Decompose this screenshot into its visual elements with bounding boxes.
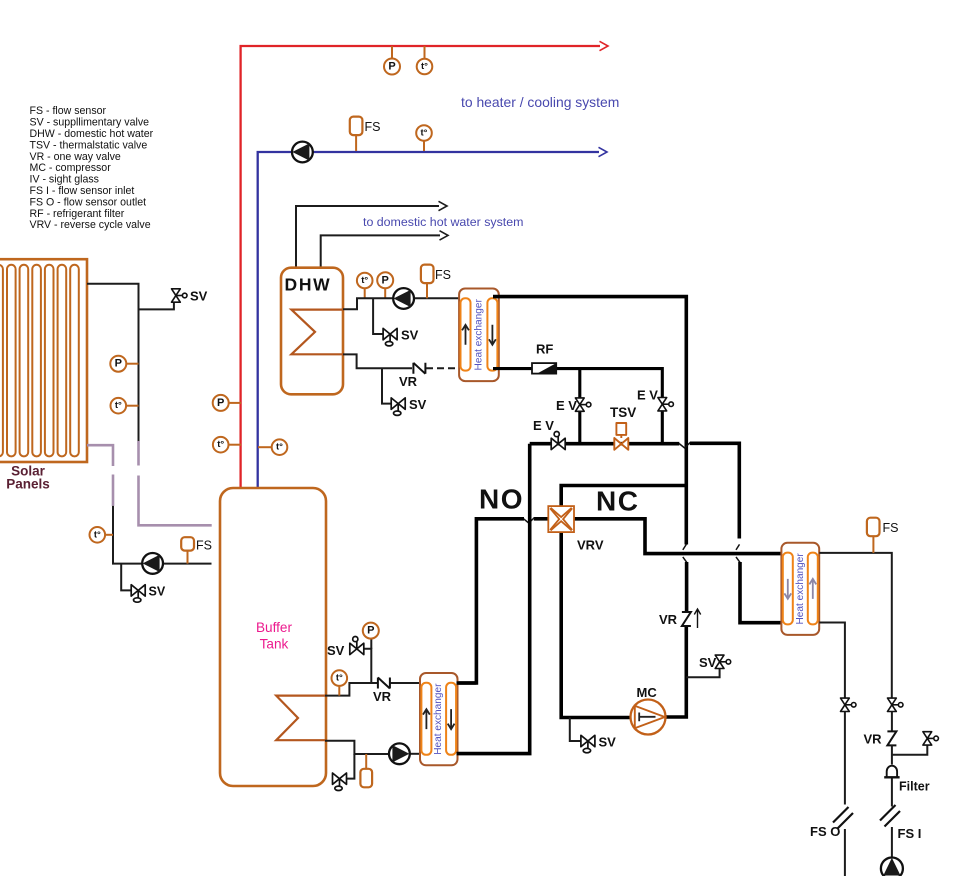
heat exchanger U1 top: left channel	[461, 298, 471, 370]
pipe: riser between valve and VR	[891, 712, 893, 732]
pipe: riser to FS I	[891, 779, 893, 807]
circulation pump (heating circuit)	[292, 142, 313, 163]
DHW circulation pump	[393, 288, 414, 309]
svg-text:P: P	[388, 61, 395, 73]
flow sensor FS (solar return) stem	[187, 550, 189, 564]
one-way valve VR (DHW)	[413, 363, 425, 374]
svg-text:VR: VR	[373, 689, 392, 704]
flow sensor FS (DHW)	[421, 265, 434, 284]
arrowhead black 2	[440, 231, 449, 240]
up arrow beside VR	[694, 609, 700, 628]
stem sensor P solar riser	[127, 363, 139, 365]
svg-text:Panels: Panels	[6, 477, 50, 492]
DHW tank vessel	[281, 268, 343, 395]
sight marks FS O (flow sensor outlet)	[833, 807, 853, 829]
pipe: solar return lower segment (black)	[113, 506, 212, 564]
line hop NO over vertical	[523, 518, 534, 524]
pipe: DHW to heat exchanger (top)	[343, 298, 460, 309]
one-way valve VR (buffer)	[378, 678, 390, 689]
buffer tank vessel	[220, 488, 326, 786]
svg-text:DHW - domestic hot water: DHW - domestic hot water	[30, 128, 154, 140]
safety valve SV (solar top)	[172, 289, 188, 302]
stem sensor t blue riser	[258, 446, 272, 448]
svg-text:t°: t°	[115, 400, 122, 411]
svg-text:P: P	[115, 358, 122, 370]
temperature sensor t (buffer return)	[272, 439, 288, 455]
svg-text:RF: RF	[536, 342, 553, 357]
svg-text:MC - compressor: MC - compressor	[30, 162, 112, 174]
pipe: bypass branch with valve	[892, 745, 927, 754]
heat exchanger U3 right: outer shell	[781, 543, 819, 635]
expansion valve EV (right)	[658, 398, 673, 411]
heat exchanger U2 bottom: flow arrow up	[423, 709, 430, 729]
svg-text:t°: t°	[276, 442, 283, 453]
svg-text:FS O - flow sensor outlet: FS O - flow sensor outlet	[30, 196, 147, 208]
pipe: HE3 right bottom to outlet riser	[819, 623, 845, 699]
svg-text:VRV: VRV	[577, 538, 604, 553]
buffer circulation pump	[389, 743, 410, 764]
svg-text:to domestic hot water system: to domestic hot water system	[363, 215, 523, 229]
pipe: buffer tank top tapping to HE2	[325, 683, 377, 696]
valve SV (compressor suction)	[581, 735, 595, 753]
DHW heating coil	[291, 310, 343, 355]
svg-text:E V: E V	[533, 418, 554, 433]
pipe: HE1 top to long right vertical (thick)	[493, 297, 686, 545]
svg-text:SV: SV	[327, 643, 345, 658]
flow sensor FS (heating circuit)	[350, 117, 363, 136]
svg-text:FS: FS	[365, 120, 381, 134]
source inlet pump	[881, 858, 903, 876]
stem sensor t red riser	[228, 444, 241, 446]
svg-text:IV - sight glass: IV - sight glass	[30, 174, 99, 186]
heat exchanger U1 top: right channel	[487, 298, 497, 370]
svg-text:FS: FS	[435, 268, 451, 282]
expansion valve EV (left)	[575, 398, 590, 411]
compressor MC	[631, 700, 666, 735]
temperature sensor t (return)	[416, 125, 432, 141]
heat exchanger U2 bottom: left channel	[421, 683, 431, 755]
svg-text:VRV - reverse cycle valve: VRV - reverse cycle valve	[30, 219, 151, 231]
flow sensor FS (solar return)	[181, 537, 194, 550]
pipe: branch to safety valve SV (solar top)	[139, 303, 174, 310]
svg-text:E V: E V	[556, 398, 577, 413]
svg-text:t°: t°	[421, 128, 428, 139]
pipe: hot supply to heater (red)	[241, 46, 600, 488]
temperature sensor t (DHW)	[357, 273, 373, 289]
stem sensor P DHW	[384, 288, 386, 298]
arrowhead blue	[599, 147, 608, 156]
pipe: TSV manifold horizontal (thick)	[530, 442, 680, 446]
pressure sensor P (solar)	[110, 356, 126, 372]
svg-text:FS: FS	[883, 521, 899, 535]
pipe: stub to valve SV below MC	[570, 718, 582, 742]
heat exchanger U1 top: flow arrow down	[489, 325, 496, 345]
pipe: branch to drain valve (buffer bottom)	[346, 754, 354, 779]
svg-text:FS - flow sensor: FS - flow sensor	[30, 105, 107, 117]
svg-text:P: P	[217, 397, 224, 409]
pipe: DHW outlet 2	[321, 235, 440, 267]
svg-text:P: P	[367, 625, 374, 637]
svg-text:SV: SV	[190, 289, 208, 304]
svg-text:t°: t°	[94, 529, 101, 540]
stem sensor t buffer outlet	[338, 685, 340, 696]
stem sensor t blue line	[423, 140, 425, 151]
flow sensor FS (source)	[867, 518, 880, 537]
svg-text:SV: SV	[599, 735, 617, 750]
svg-text:Tank: Tank	[260, 637, 289, 652]
temperature sensor t (buffer supply)	[213, 437, 229, 453]
pressure sensor P (buffer supply)	[213, 395, 229, 411]
svg-text:P: P	[382, 274, 389, 286]
stem sensor P red riser	[229, 402, 241, 404]
valve SV (buffer stub)	[350, 637, 364, 655]
pipe: DHW to heat exchanger (bottom) with one-way valve	[343, 354, 412, 368]
pipe: riser below VR	[891, 745, 893, 765]
pipe: solar panel bottom return (purple)	[87, 445, 113, 466]
drain valve SV (solar return)	[131, 585, 145, 603]
pipe: VRV left NO line (thick)	[534, 517, 549, 521]
svg-text:SV - suppllimentary valve: SV - suppllimentary valve	[30, 117, 150, 129]
pipe: down to HE3 bottom-left (thick)	[740, 562, 782, 623]
svg-text:VR - one way valve: VR - one way valve	[30, 151, 121, 163]
pipe: DHW outlet 1	[296, 206, 439, 268]
line hop over vertical	[679, 443, 690, 449]
heat exchanger U1 top: outer shell	[459, 289, 499, 382]
svg-text:Filter: Filter	[899, 780, 930, 794]
sight marks FS I (flow sensor inlet)	[880, 805, 900, 827]
svg-text:SV: SV	[409, 397, 427, 412]
pipe: HE2 right bottom to TSV manifold riser (thick)	[457, 444, 530, 754]
pressure sensor P (buffer stub)	[363, 623, 379, 639]
drain valve (buffer bottom)	[333, 773, 347, 791]
pipe: branch to drain valve SV (solar return)	[121, 564, 131, 591]
temperature sensor t (solar)	[111, 398, 127, 414]
solar circulation pump	[142, 553, 163, 574]
filter (source line)	[884, 766, 899, 778]
hop of vertical over NC feed	[683, 544, 687, 562]
svg-text:Buffer: Buffer	[256, 620, 292, 635]
temperature sensor t (solar return)	[90, 527, 106, 543]
svg-text:t°: t°	[361, 275, 368, 286]
arrowhead red	[600, 41, 609, 50]
pipe: outlet riser to FS O	[844, 712, 846, 805]
flow sensor FS (buffer)	[360, 769, 372, 788]
pipe: VRV top loop (thick)	[561, 486, 686, 507]
svg-text:VR: VR	[659, 612, 678, 627]
svg-text:RF - refrigerant filter: RF - refrigerant filter	[30, 208, 125, 220]
arrowhead black 1	[439, 201, 448, 210]
pipe: branch to valve SV (right of vertical)	[686, 669, 719, 677]
one-way valve VR (source)	[887, 731, 896, 745]
pipe: VRV right NC line to HE3 (thick)	[574, 519, 782, 554]
pipe: branch to valve SV (DHW top)	[373, 298, 383, 334]
heat exchanger U3 right: right channel	[808, 553, 818, 625]
pipe: solar riser lower segment (purple)	[137, 441, 140, 466]
flow sensor FS (source circuit)	[872, 536, 874, 553]
pipe: HE3 right top to outer riser	[819, 553, 892, 698]
pipe: VRV bottom to compressor MC (thick)	[561, 532, 631, 718]
svg-text:SV: SV	[401, 328, 419, 343]
temperature sensor t (supply)	[417, 59, 433, 75]
expansion valve EV (manifold)	[551, 432, 565, 450]
flow sensor FS (DHW)	[426, 283, 428, 298]
svg-text:t°: t°	[217, 439, 224, 450]
pipe: HE1 bottom through refrigerant filter RF (thick)	[493, 367, 532, 370]
temperature sensor t (buffer outlet)	[332, 670, 348, 686]
valve SV (service)	[715, 655, 731, 668]
stem sensor t DHW	[364, 288, 366, 298]
solar panel tubes	[0, 265, 79, 457]
line hop of vertical over HE3 feed	[736, 544, 740, 562]
svg-text:Heat exchanger: Heat exchanger	[473, 299, 484, 371]
svg-text:TSV: TSV	[610, 405, 636, 420]
svg-text:FS O: FS O	[810, 824, 840, 839]
stem FS blue line	[355, 134, 357, 151]
heat exchanger U3 right: left channel	[783, 553, 793, 625]
legend text block	[30, 105, 154, 231]
svg-text:TSV - thermalstatic valve: TSV - thermalstatic valve	[30, 139, 148, 151]
svg-text:SV: SV	[149, 585, 166, 599]
stem sensor t solar riser	[126, 405, 139, 407]
svg-text:DHW: DHW	[285, 275, 332, 295]
pipe: long vertical lower part to compressor	[664, 626, 686, 718]
stem sensor t top	[424, 46, 426, 59]
refrigerant filter RF	[532, 363, 556, 374]
svg-text:SV: SV	[699, 655, 717, 670]
stem sensor P top	[391, 46, 393, 59]
pipe: riser to inlet pump	[891, 827, 893, 859]
svg-text:Heat exchanger: Heat exchanger	[795, 553, 806, 625]
heat exchanger U2 bottom: flow arrow down	[448, 709, 455, 729]
heat exchanger U2 bottom: outer shell	[420, 673, 458, 765]
valve SV (DHW top)	[383, 328, 397, 346]
svg-text:t°: t°	[421, 61, 428, 72]
pipe: return from heater (blue)	[258, 152, 599, 488]
heat exchanger U3 right: flow arrow down	[784, 579, 791, 599]
shut-off valve (source inlet riser)	[888, 698, 904, 711]
pipe: branch to valve SV (DHW bottom)	[382, 368, 392, 403]
pipe: outlet riser to bottom edge	[844, 829, 846, 876]
svg-text:FS: FS	[196, 539, 212, 553]
stem sensor t solar return	[105, 534, 114, 536]
valve SV (DHW bottom)	[391, 398, 405, 416]
svg-text:E V: E V	[637, 388, 658, 403]
svg-text:to heater / cooling system: to heater / cooling system	[461, 94, 619, 110]
heat exchanger U2 bottom: right channel	[446, 683, 456, 755]
svg-text:t°: t°	[336, 673, 343, 684]
svg-text:NC: NC	[596, 486, 639, 517]
svg-text:MC: MC	[637, 685, 658, 700]
svg-text:VR: VR	[399, 374, 418, 389]
svg-text:FS I - flow sensor inlet: FS I - flow sensor inlet	[30, 185, 135, 197]
solar panel collector	[0, 259, 87, 462]
pipe: VR to HE1 dashed	[426, 367, 460, 369]
heat exchanger U1 top: flow arrow up	[462, 325, 469, 345]
pipe: EV branch left (thick)	[578, 369, 581, 398]
pipe: stub to P sensor and SV valve	[364, 649, 371, 683]
pipe: buffer tank bottom tapping to HE2	[325, 741, 390, 754]
pipe: solar panel top outlet	[87, 284, 139, 441]
flow sensor FS (buffer) below line	[365, 754, 367, 769]
svg-text:FS I: FS I	[898, 826, 922, 841]
buffer tank heating coil	[276, 696, 325, 741]
pressure sensor P (DHW)	[377, 272, 393, 288]
reverse cycle valve VRV	[548, 506, 574, 532]
pressure sensor P (supply)	[384, 59, 400, 75]
svg-text:Heat exchanger: Heat exchanger	[433, 683, 444, 755]
thermostatic valve TSV	[614, 423, 628, 450]
svg-text:VR: VR	[864, 732, 883, 747]
bypass valve (source)	[923, 732, 938, 745]
heat exchanger U3 right: flow arrow up	[809, 579, 816, 599]
pipe: HE2 right top (thick) connects NO riser	[457, 681, 477, 685]
shut-off valve (source outlet riser)	[841, 698, 857, 711]
one-way valve VR (compressor discharge)	[682, 612, 691, 626]
svg-text:NO: NO	[479, 484, 524, 515]
